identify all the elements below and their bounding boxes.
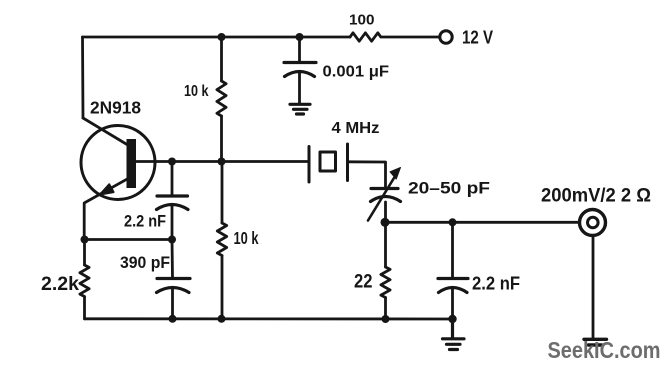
output terminal 200mV <box>580 210 606 236</box>
crystal Y1 4MHz <box>309 144 348 182</box>
svg-text:12 V: 12 V <box>462 28 493 48</box>
capacitor 2.2nF feedback <box>157 162 189 240</box>
wire crystal to trimmer <box>348 162 386 188</box>
wire base lead / middle row <box>136 160 309 163</box>
node junction base / 10k divider <box>218 158 226 166</box>
wire emitter row <box>85 238 173 241</box>
svg-text:2.2k: 2.2k <box>41 273 79 295</box>
svg-text:22: 22 <box>354 272 373 293</box>
resistor 100 <box>350 33 439 41</box>
wire top rail <box>83 36 351 39</box>
svg-text:2.2 nF: 2.2 nF <box>124 213 166 231</box>
svg-text:10 k: 10 k <box>234 228 259 248</box>
ground at bypass cap <box>290 104 310 114</box>
node junction output row / 2.2nF <box>449 218 457 226</box>
resistor R 10k lower <box>217 162 226 319</box>
node junction bottom / 390pF <box>169 315 177 323</box>
svg-text:0.001 μF: 0.001 μF <box>323 64 390 81</box>
wire output row <box>385 221 580 224</box>
resistor R 10k upper <box>217 37 226 162</box>
node junction top rail / bypass cap <box>296 33 304 41</box>
svg-text:20–50 pF: 20–50 pF <box>408 179 490 198</box>
resistor R 22 <box>381 222 390 318</box>
capacitor 0.001uF <box>284 37 316 104</box>
svg-text:4 MHz: 4 MHz <box>332 120 380 137</box>
wire left vertical from top rail <box>81 37 84 118</box>
node junction bottom / 22 <box>382 315 390 323</box>
capacitor C trimmer 20-50pF <box>368 168 401 223</box>
svg-text:2N918: 2N918 <box>90 98 141 118</box>
capacitor 390pF <box>157 240 191 319</box>
12V supply terminal <box>440 31 452 43</box>
svg-text:SeekIC.com: SeekIC.com <box>548 337 661 363</box>
node junction emitter row left <box>81 236 89 244</box>
svg-text:100: 100 <box>349 12 375 29</box>
node junction emitter row / caps <box>168 236 176 244</box>
node junction base / 2.2nF <box>168 158 176 166</box>
node junction top rail / 10k <box>218 33 226 41</box>
ground at bottom rail <box>443 319 465 350</box>
svg-text:10 k: 10 k <box>184 83 209 100</box>
ground at output terminal <box>584 339 607 345</box>
wire output terminal to ground <box>592 236 595 339</box>
node junction bottom / ground <box>448 315 456 323</box>
svg-text:2.2 nF: 2.2 nF <box>472 273 520 294</box>
svg-text:390 pF: 390 pF <box>120 254 170 272</box>
transistor Q1 2N918 <box>81 118 155 240</box>
node junction trimmer / output row <box>381 218 390 227</box>
node junction bottom / 10k <box>218 315 226 323</box>
resistor R 2.2k <box>80 240 89 319</box>
svg-text:200mV/2 2 Ω: 200mV/2 2 Ω <box>541 186 651 207</box>
capacitor 2.2nF output <box>438 222 468 319</box>
wire bottom rail <box>85 317 453 320</box>
